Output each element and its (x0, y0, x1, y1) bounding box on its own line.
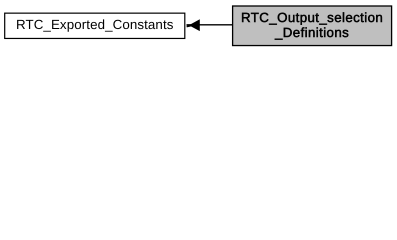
arrowhead (190, 20, 199, 30)
svg-text:_Definitions: _Definitions (274, 25, 349, 40)
wire curl at node (187, 25, 194, 27)
svg-text:RTC_Exported_Constants: RTC_Exported_Constants (16, 17, 174, 32)
background (0, 0, 397, 52)
svg-text:RTC_Output_selection: RTC_Output_selection (241, 10, 383, 25)
wire edge (187, 24, 233, 26)
node RTC_Exported_Constants (5, 13, 185, 38)
node RTC_Output_selection_Definitions (233, 6, 392, 46)
